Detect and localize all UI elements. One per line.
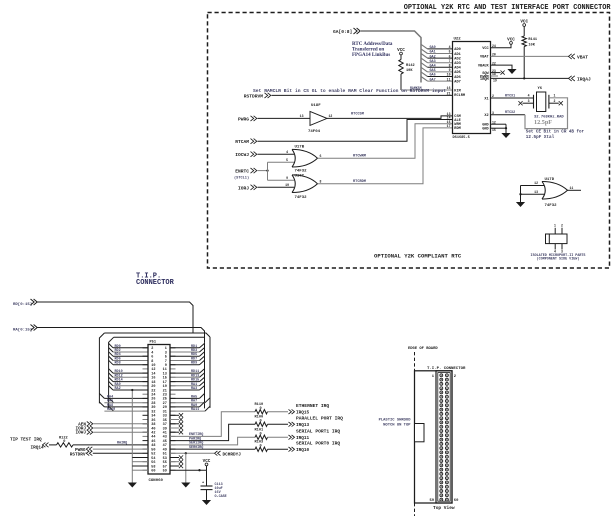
svg-text:8: 8 [449,64,451,68]
svg-text:RDM: RDM [454,127,460,131]
svg-text:10: 10 [285,183,289,187]
svg-text:8: 8 [320,179,322,183]
wire KIM net [401,89,453,91]
wire PWRG to buffer [258,117,311,119]
wire to off-page IRQ10 [268,448,289,450]
or-gate U17B 74F32 [292,149,295,167]
svg-text:PWRG: PWRG [238,116,249,122]
svg-text:IRQM: IRQM [480,78,489,82]
wire RTCWRM gate output to WRM [318,124,453,159]
wire left pin row 7 net RD10 [109,369,113,373]
svg-text:0: 0 [260,444,262,448]
svg-text:EDGE OF BOARD: EDGE OF BOARD [408,347,438,351]
wire IRQM to off-page IRQAJ [491,77,569,79]
wire IORJ to U17C pin10 [258,186,295,188]
wire GND pins to ground [491,123,507,125]
power VCC at connector [206,466,208,470]
svg-text:4: 4 [528,94,530,98]
bus tap GA7 wire to pin AD7 [421,77,428,82]
bus tap GA6 wire to pin AD6 [421,72,428,77]
svg-text:+: + [202,481,204,485]
svg-text:IRQ13: IRQ13 [296,423,310,428]
svg-text:Top View: Top View [433,505,455,511]
svg-text:12: 12 [534,181,538,185]
svg-text:4: 4 [449,45,451,49]
wire left pin row 4 net RD6 [109,356,113,360]
svg-text:10K: 10K [406,69,413,73]
svg-text:GA7: GA7 [430,78,436,82]
wire RTCRDM gate output to RDM [318,128,453,184]
svg-text:DS1685-5: DS1685-5 [453,136,470,140]
wire ENETIRQ from connector row 22 [170,412,255,437]
svg-text:AD7: AD7 [454,80,460,84]
pin field double border [436,371,452,503]
svg-text:NOTCH ON TOP: NOTCH ON TOP [383,424,411,428]
no-connect right row 21 [170,431,179,433]
svg-text:12.5pF: 12.5pF [534,119,552,126]
svg-text:17: 17 [447,124,451,128]
svg-text:GA3: GA3 [430,60,436,64]
svg-text:13: 13 [300,114,304,118]
wire right pin row 1 net RD1 [170,347,200,349]
svg-text:Set RAMCLR Bit in CS GL to ena: Set RAMCLR Bit in CS GL to enable RAM Cl… [253,89,446,94]
resistor R110 0 ohm [255,410,268,414]
bus tap GA0 wire to pin AD0 [421,44,428,49]
svg-text:9: 9 [449,68,451,72]
no-connect right row 29 [170,465,179,467]
svg-text:GND: GND [482,128,489,132]
svg-text:AD1: AD1 [454,53,460,57]
svg-text:IRQ10: IRQ10 [296,448,310,453]
svg-text:ETHERNET IRQ: ETHERNET IRQ [296,404,330,409]
svg-text:RA10: RA10 [107,408,115,412]
ground left of connector [128,483,137,488]
svg-text:11: 11 [570,186,574,190]
svg-text:RTCAM: RTCAM [235,139,249,145]
svg-text:RA[0:15]: RA[0:15] [13,327,32,332]
svg-text:10: 10 [447,73,451,77]
wire VBAUX to ground [491,65,513,69]
svg-text:R141: R141 [528,38,537,42]
no-connect right row 27 [170,457,179,459]
svg-text:0: 0 [260,407,262,411]
wire left pin row 8 net RD12 [109,373,113,377]
or-gate U17C 74F32 [292,175,295,193]
svg-text:74F04: 74F04 [308,130,321,134]
buffer U18F 74F04 [310,111,327,125]
svg-text:(COMPONENT SIDE VIEW): (COMPONENT SIDE VIEW) [537,257,580,262]
resistor R141 10K pullup [522,36,526,47]
wire X1 to crystal [491,97,534,99]
wire right pin row 5 net RD9 [170,364,200,366]
bus vertical V3 right outer [209,337,211,408]
svg-text:1: 1 [554,224,556,228]
stub PWRM pin 18 [491,75,499,77]
ground below C113 [202,500,211,505]
svg-text:RD8: RD8 [115,362,121,366]
svg-text:VBAUX: VBAUX [478,64,490,68]
svg-text:RD9: RD9 [191,362,197,366]
svg-text:DCHRDYJ: DCHRDYJ [223,452,242,457]
svg-text:GA[0:8]: GA[0:8] [333,29,352,35]
svg-text:1: 1 [554,94,556,98]
svg-text:74F32: 74F32 [295,196,308,200]
svg-text:74F32: 74F32 [295,170,308,174]
bus loop top horizontal H1 [104,333,210,337]
svg-text:2: 2 [492,94,494,98]
wire left pin row 2 net RD2 [109,348,113,352]
svg-text:12: 12 [492,120,496,124]
bus tap GA5 wire to pin AD5 [421,67,428,72]
svg-text:RTCWRM: RTCWRM [353,155,366,159]
bus tap GA1 wire to pin AD1 [421,49,428,54]
svg-text:IOWJ: IOWJ [75,431,86,436]
svg-text:RTCCSM: RTCCSM [351,112,364,116]
svg-text:ENRTC: ENRTC [235,169,249,175]
resistor R122 0 ohm [57,443,74,447]
svg-text:AD3: AD3 [454,62,460,66]
svg-text:GA5: GA5 [430,69,436,73]
svg-text:RAIRQ: RAIRQ [117,442,127,446]
svg-text:60: 60 [454,499,459,503]
notch rectangle plastic shroud [415,424,425,442]
svg-text:U17B: U17B [295,145,305,149]
connector body outline top view [415,371,453,503]
svg-text:AD5: AD5 [454,71,460,75]
svg-text:IRQ15: IRQ15 [296,411,310,416]
svg-text:5: 5 [449,50,451,54]
wire left pin row 11 net RA2 [109,386,113,390]
wire right pin row 8 net RD13 [170,376,200,378]
wire to off-page IRQ13 [268,423,289,425]
wire left pin row 10 net RA0 [109,381,113,385]
wire right pin row 13 net RA5 [170,397,200,399]
svg-text:RTC Address/Data: RTC Address/Data [352,42,393,47]
svg-text:VBAT: VBAT [577,54,588,60]
no-connect right row 17 [170,414,179,416]
svg-text:SER0IRQ: SER0IRQ [189,446,203,450]
wire right pin row 4 net RD7 [170,360,200,362]
wire right pin row 2 net RD3 [170,351,200,353]
svg-text:GA0: GA0 [430,46,436,50]
or-gate U17D 74F32 spare [542,182,545,200]
svg-text:CONNECTOR: CONNECTOR [136,279,175,287]
no-connect crystal case pin right [549,102,559,104]
resistor R103 0 ohm [255,447,268,451]
wire to off-page IRQ11 [268,436,289,438]
svg-text:Transferred on: Transferred on [352,48,384,53]
svg-text:TIP TEST IRQ: TIP TEST IRQ [10,438,42,443]
svg-text:RA11: RA11 [191,408,199,412]
svg-text:PARALLEL PORT IRQ: PARALLEL PORT IRQ [296,417,343,422]
wire RTCCSM [327,116,453,119]
svg-text:RA3: RA3 [191,387,197,391]
svg-text:0: 0 [260,432,262,436]
svg-text:4: 4 [286,150,288,154]
svg-text:6: 6 [449,54,451,58]
wire VCC to connector row 30 [170,469,207,471]
wire ENRTC split [258,170,268,172]
ic U22 DS1685-5 RTC [453,42,491,134]
wire U17D inputs tied to ground [521,185,545,187]
svg-text:22: 22 [492,61,496,65]
svg-text:21: 21 [447,92,451,96]
bus tap GA2 wire to pin AD2 [421,54,428,59]
no-connect right row 19 [170,423,179,425]
wire SER0IRQ from connector row 25 [170,448,255,450]
bus vertical V1 left outer [99,333,104,403]
svg-text:3: 3 [528,99,530,103]
wire right pin row 7 net RD11 [170,372,200,374]
bus vertical V2 left inner [109,337,114,408]
svg-text:60: 60 [151,470,155,474]
connector pin stubs [143,347,149,349]
wire right pin row 14 net RA7 [170,402,205,404]
connector P51 CON060 body [148,345,170,475]
svg-text:24: 24 [492,44,496,48]
wire IOCWJ to U17B pin4 [258,153,295,155]
ground right of connector [181,483,190,488]
svg-text:20: 20 [492,53,496,57]
svg-text:U17C: U17C [295,174,305,178]
bus loop top horizontal H2 [114,336,205,338]
svg-text:3: 3 [492,111,494,115]
wire to ground right of connector [185,453,187,482]
svg-text:R142: R142 [406,64,415,68]
svg-text:OPTIONAL Y2K COMPLIANT RTC: OPTIONAL Y2K COMPLIANT RTC [374,253,462,260]
wire left pin row 15 net RA8 [99,402,104,407]
resistor R101 0 ohm [255,435,268,439]
bus vertical V4 right inner [204,342,206,408]
svg-text:X1: X1 [484,97,488,101]
svg-text:74F32: 74F32 [545,204,558,208]
svg-text:AD6: AD6 [454,76,460,80]
svg-text:U17D: U17D [545,178,555,182]
no-connect crystal case pin left [523,102,534,104]
wire X2 loop to crystal [491,114,526,116]
svg-text:IORJ: IORJ [238,185,249,191]
svg-text:PLASTIC SHROUD: PLASTIC SHROUD [379,419,412,423]
svg-text:OPTIONAL Y2K RTC AND TEST INTE: OPTIONAL Y2K RTC AND TEST INTERFACE PORT… [404,4,612,12]
wire VBAT to off-page [491,55,569,57]
svg-text:P51: P51 [150,341,156,345]
svg-text:SERIAL PORT1 IRQ: SERIAL PORT1 IRQ [296,430,341,435]
svg-text:2: 2 [561,224,563,228]
jumper J? isolated microport part [546,234,568,244]
power VCC at chip pin 24 [491,44,512,48]
no-connect SQW pin 23 [491,72,501,74]
wire right pin row 15 net RA9 [170,406,200,408]
dashed border box: optional Y2K RTC section [208,13,610,269]
svg-text:7: 7 [449,59,451,63]
svg-text:GA1: GA1 [430,51,436,55]
svg-text:U22: U22 [454,38,462,42]
svg-text:AD4: AD4 [454,67,461,71]
svg-text:IRQ11: IRQ11 [296,436,310,441]
svg-text:4: 4 [554,249,556,253]
svg-text:IRQ14: IRQ14 [31,446,45,451]
svg-text:GA2: GA2 [430,55,436,59]
wire left pin row 14 net RA6 [109,398,114,403]
svg-text:X2: X2 [484,114,488,118]
pin circles [440,374,443,377]
svg-text:12.5pF Xtal: 12.5pF Xtal [526,135,555,140]
svg-text:IOCWJ: IOCWJ [235,152,249,158]
svg-text:RD[0:15]: RD[0:15] [13,302,32,307]
wire left pin row 3 net RD4 [109,352,113,356]
wire right pin row 9 net RD15 [170,381,200,383]
svg-text:11: 11 [447,77,451,81]
svg-text:Y6: Y6 [538,87,543,91]
wire RAIRQ to connector [73,444,148,446]
wire right pin row 11 net RA3 [170,389,200,391]
resistor R142 10K [400,55,402,60]
svg-text:12: 12 [329,114,333,118]
svg-text:5: 5 [286,158,288,162]
svg-text:19: 19 [493,79,497,83]
svg-text:RTCX2: RTCX2 [505,111,515,115]
svg-text:SERIAL PORT0 IRQ: SERIAL PORT0 IRQ [296,442,341,447]
svg-text:GA6: GA6 [430,74,436,78]
svg-text:9: 9 [286,176,288,180]
svg-text:(STCL1): (STCL1) [234,175,249,180]
svg-text:16: 16 [492,128,496,132]
wire ground collector left [131,390,133,483]
svg-text:VCC: VCC [482,47,489,51]
wire RCLRM [272,94,453,96]
no-connect right row 20 [170,427,179,429]
svg-text:RTCX1: RTCX1 [505,94,515,98]
bus tap GA3 wire to pin AD3 [421,58,428,63]
svg-text:2: 2 [554,99,556,103]
svg-text:RA2: RA2 [115,387,121,391]
svg-text:RSTDRV: RSTDRV [70,452,86,457]
svg-text:GA4: GA4 [430,65,436,69]
bus GA wire [361,31,421,83]
svg-text:VBAT: VBAT [480,56,489,60]
svg-text:RTCRDM: RTCRDM [353,180,366,184]
wire left pin row 1 net RD0 [109,343,113,347]
bus RA feed wire [38,328,205,343]
wire SER1IRQ from connector row 24 [170,437,255,445]
wire RTCAM to ALE [258,120,453,142]
wire left pin row 9 net RD14 [109,377,113,381]
wire DCHRDYJ from connector row 26 [170,452,214,454]
svg-text:13: 13 [534,190,538,194]
capacitor C113 10uF [206,470,208,486]
wire left pin row 16 net RA10 [109,406,114,411]
wire U17D output [568,189,582,191]
svg-text:59: 59 [429,499,434,503]
svg-text:59: 59 [163,470,167,474]
bus tap GA4 wire to pin AD4 [421,63,428,68]
svg-text:0: 0 [260,419,262,423]
svg-text:RCLRM: RCLRM [454,94,465,98]
svg-text:O-CASE: O-CASE [215,495,227,499]
bus RD feed wire [38,302,194,333]
no-connect right row 28 [170,461,179,463]
svg-text:16: 16 [447,86,451,90]
svg-text:6: 6 [320,154,322,158]
svg-text:IRQAJ: IRQAJ [577,76,591,82]
wire right pin row 3 net RD5 [170,355,200,357]
wire left pin row 5 net RD8 [109,360,113,364]
svg-text:3: 3 [561,249,563,253]
wire to off-page IRQ15 [268,411,289,413]
svg-text:CON060: CON060 [149,479,164,483]
wire right pin row 16 net RA11 [170,410,205,412]
svg-text:FPGA14 LinkBus: FPGA14 LinkBus [352,53,390,58]
svg-text:KIM: KIM [454,89,460,93]
no-connect right row 18 [170,419,179,421]
dashed board edge line [414,352,416,516]
wire left pin row 13 net RA4 [99,394,104,399]
wire PARIRQ from connector row 23 [170,424,255,440]
ground U17D inputs [516,202,525,207]
svg-text:AD0: AD0 [454,48,460,52]
resistor R100 0 ohm [255,422,268,426]
svg-text:AD2: AD2 [454,57,460,61]
svg-text:0: 0 [63,440,65,444]
svg-text:10K: 10K [528,43,535,47]
svg-text:Set CE Bit in CR 4B for: Set CE Bit in CR 4B for [526,129,585,134]
wire right pin row 10 net RA1 [170,385,200,387]
svg-text:18: 18 [492,72,496,76]
svg-text:U18F: U18F [311,104,321,108]
